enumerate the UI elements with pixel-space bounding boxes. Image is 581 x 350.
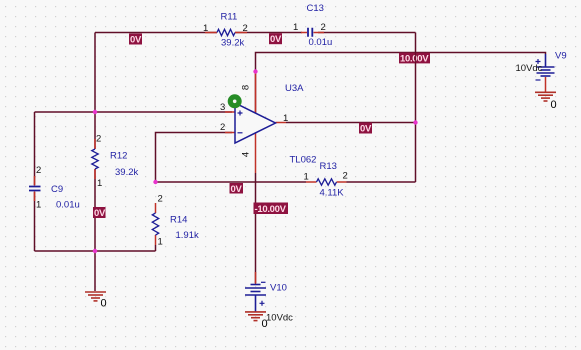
voltage source V10 plus sign (260, 301, 265, 306)
op-amp minus mark (238, 132, 243, 134)
pin stub C9 top (34, 176, 36, 186)
junction dot bottom rail at ground (93, 249, 97, 253)
svg-text:1: 1 (283, 113, 288, 124)
bias label -10.00V (V- rail) (254, 203, 289, 216)
svg-text:1: 1 (304, 172, 309, 183)
pin stub C9 bottom (34, 192, 36, 202)
pin stub R13 right (337, 181, 347, 183)
capacitor C9 body (29, 187, 41, 191)
ground symbol under V9 (535, 92, 556, 101)
svg-text:0.01u: 0.01u (56, 200, 80, 211)
bias label 0V (top left net) (129, 34, 142, 46)
wire top rail from left riser to C13/R11 run (95, 32, 416, 34)
wire left riser x=95 (top rail down to pin3 row) (94, 33, 96, 113)
pin stub op-amp pin8 (255, 72, 257, 113)
svg-text:39.2k: 39.2k (221, 38, 244, 49)
voltage source V9 plus sign (536, 59, 541, 64)
bias label 0V (inverting net) (230, 183, 244, 195)
svg-text:8: 8 (241, 85, 252, 90)
pin stub op-amp pin3 (225, 111, 235, 113)
ground symbol under V10 (245, 312, 266, 321)
svg-text:10.00V: 10.00V (400, 54, 429, 65)
junction dot pin3 node at left riser (93, 110, 97, 114)
bias label 0V (ground net at R12) (93, 207, 106, 219)
svg-text:R11: R11 (221, 12, 238, 23)
svg-text:2: 2 (36, 165, 41, 176)
svg-text:1: 1 (97, 178, 102, 189)
pin stub op-amp pin4 (255, 133, 257, 173)
op-amp U3A triangle (235, 103, 276, 143)
svg-text:R12: R12 (110, 151, 127, 162)
resistor R11 body (217, 29, 235, 35)
resistor R13 body (317, 179, 337, 185)
wire ground stub below junction (94, 251, 96, 291)
svg-text:0: 0 (101, 298, 107, 310)
bias label 0V (near C13) (269, 33, 282, 45)
svg-text:V10: V10 (270, 283, 287, 294)
pin stub R13 left (306, 181, 317, 183)
pin stub V10 plus (top) (255, 272, 257, 284)
pin stub R14 bottom (155, 235, 157, 245)
bias label 10.00V (V+ rail) (399, 53, 430, 65)
wire feedback row y=182 (R13) (156, 181, 416, 183)
voltage source V10 battery plates (245, 285, 266, 312)
svg-text:0V: 0V (360, 124, 372, 135)
pin stub R11 right (235, 32, 247, 34)
wire pin3 row y=112 (35, 111, 233, 113)
svg-text:1: 1 (158, 237, 163, 248)
svg-text:0V: 0V (270, 34, 282, 45)
svg-text:1: 1 (36, 200, 41, 211)
wire bottom rail y=251 (35, 250, 156, 252)
bias label 0V (output net) (359, 123, 372, 135)
green voltage probe marker on pin3 node (228, 94, 242, 108)
wire inverting input: pin2 to riser to feedback row (156, 133, 233, 183)
resistor R14 body (vertical) (152, 213, 158, 235)
svg-text:4: 4 (241, 152, 252, 157)
resistor R12 body (vertical) (92, 149, 98, 169)
junction dot V+ rail on pin8 (253, 69, 257, 73)
svg-text:3: 3 (220, 102, 225, 113)
svg-text:0V: 0V (231, 184, 243, 195)
voltage source V9 minus sign (536, 79, 541, 81)
svg-text:0V: 0V (130, 35, 142, 46)
svg-text:1: 1 (293, 22, 298, 33)
pin stub op-amp pin1 output (276, 122, 287, 124)
svg-text:2: 2 (220, 122, 225, 133)
svg-text:10Vdc: 10Vdc (266, 313, 293, 324)
voltage source V9 battery plates (537, 54, 555, 76)
svg-text:R13: R13 (320, 161, 337, 172)
pin stub op-amp pin2 (225, 132, 235, 134)
wire V- pin4 drop to V10 (255, 173, 257, 283)
wire riser crossing over 10.00V label (415, 53, 417, 64)
wire left rail x=34.5 with C9 gap (34, 112, 36, 251)
svg-text:2: 2 (158, 194, 163, 205)
capacitor C13 body (308, 28, 312, 37)
svg-text:2: 2 (321, 22, 326, 33)
svg-text:0.01u: 0.01u (309, 37, 333, 48)
junction dot inverting node (153, 180, 157, 184)
ground symbol bottom-left (85, 292, 106, 301)
pin stub V9 minus (bottom) (545, 77, 547, 92)
svg-text:2: 2 (343, 171, 348, 182)
svg-text:TL062: TL062 (290, 155, 317, 166)
pin stub C13 left (301, 32, 307, 34)
svg-text:4.11K: 4.11K (320, 188, 345, 199)
svg-text:0: 0 (262, 318, 268, 330)
svg-text:V9: V9 (555, 51, 567, 62)
wire output row y=122.5 (286, 122, 416, 124)
pin stub R12 bottom (94, 169, 96, 179)
svg-text:0V: 0V (94, 208, 106, 219)
svg-text:C13: C13 (307, 3, 324, 14)
svg-text:R14: R14 (170, 215, 187, 226)
wire right riser x=415.5 (415, 33, 417, 183)
voltage source V10 minus sign (261, 281, 266, 283)
op-amp plus mark (238, 111, 243, 116)
pin stub R14 top (155, 203, 157, 213)
svg-text:2: 2 (96, 134, 101, 145)
wire R14 bottom drop (155, 245, 157, 251)
svg-text:U3A: U3A (285, 83, 304, 94)
svg-text:0: 0 (551, 99, 557, 111)
pin stub C13 right (314, 32, 325, 34)
wire R12 rail x=95 (94, 112, 96, 251)
wire V+ rail y=52.5 to V9 (256, 53, 546, 114)
pin stub R12 top (94, 139, 96, 149)
svg-text:2: 2 (243, 23, 248, 34)
svg-text:1: 1 (203, 23, 208, 34)
pin stub R11 left (205, 32, 217, 34)
svg-text:-10.00V: -10.00V (255, 204, 287, 215)
svg-text:10Vdc: 10Vdc (516, 63, 543, 74)
svg-text:39.2k: 39.2k (115, 167, 138, 178)
junction dot output node (413, 120, 417, 124)
svg-text:1.91k: 1.91k (176, 230, 199, 241)
svg-text:C9: C9 (51, 184, 63, 195)
